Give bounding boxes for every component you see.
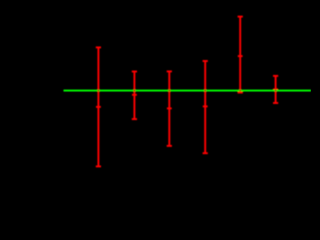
error bar 1 xyxy=(96,47,101,166)
error bar 5 xyxy=(238,17,243,93)
crossing blends where red stems meet the fit line xyxy=(97,90,276,92)
error bar 6 xyxy=(273,76,278,103)
fit line xyxy=(64,90,312,92)
error bar 3 xyxy=(167,71,172,145)
error bar 4 xyxy=(203,61,208,153)
error bar 2 xyxy=(132,72,137,120)
